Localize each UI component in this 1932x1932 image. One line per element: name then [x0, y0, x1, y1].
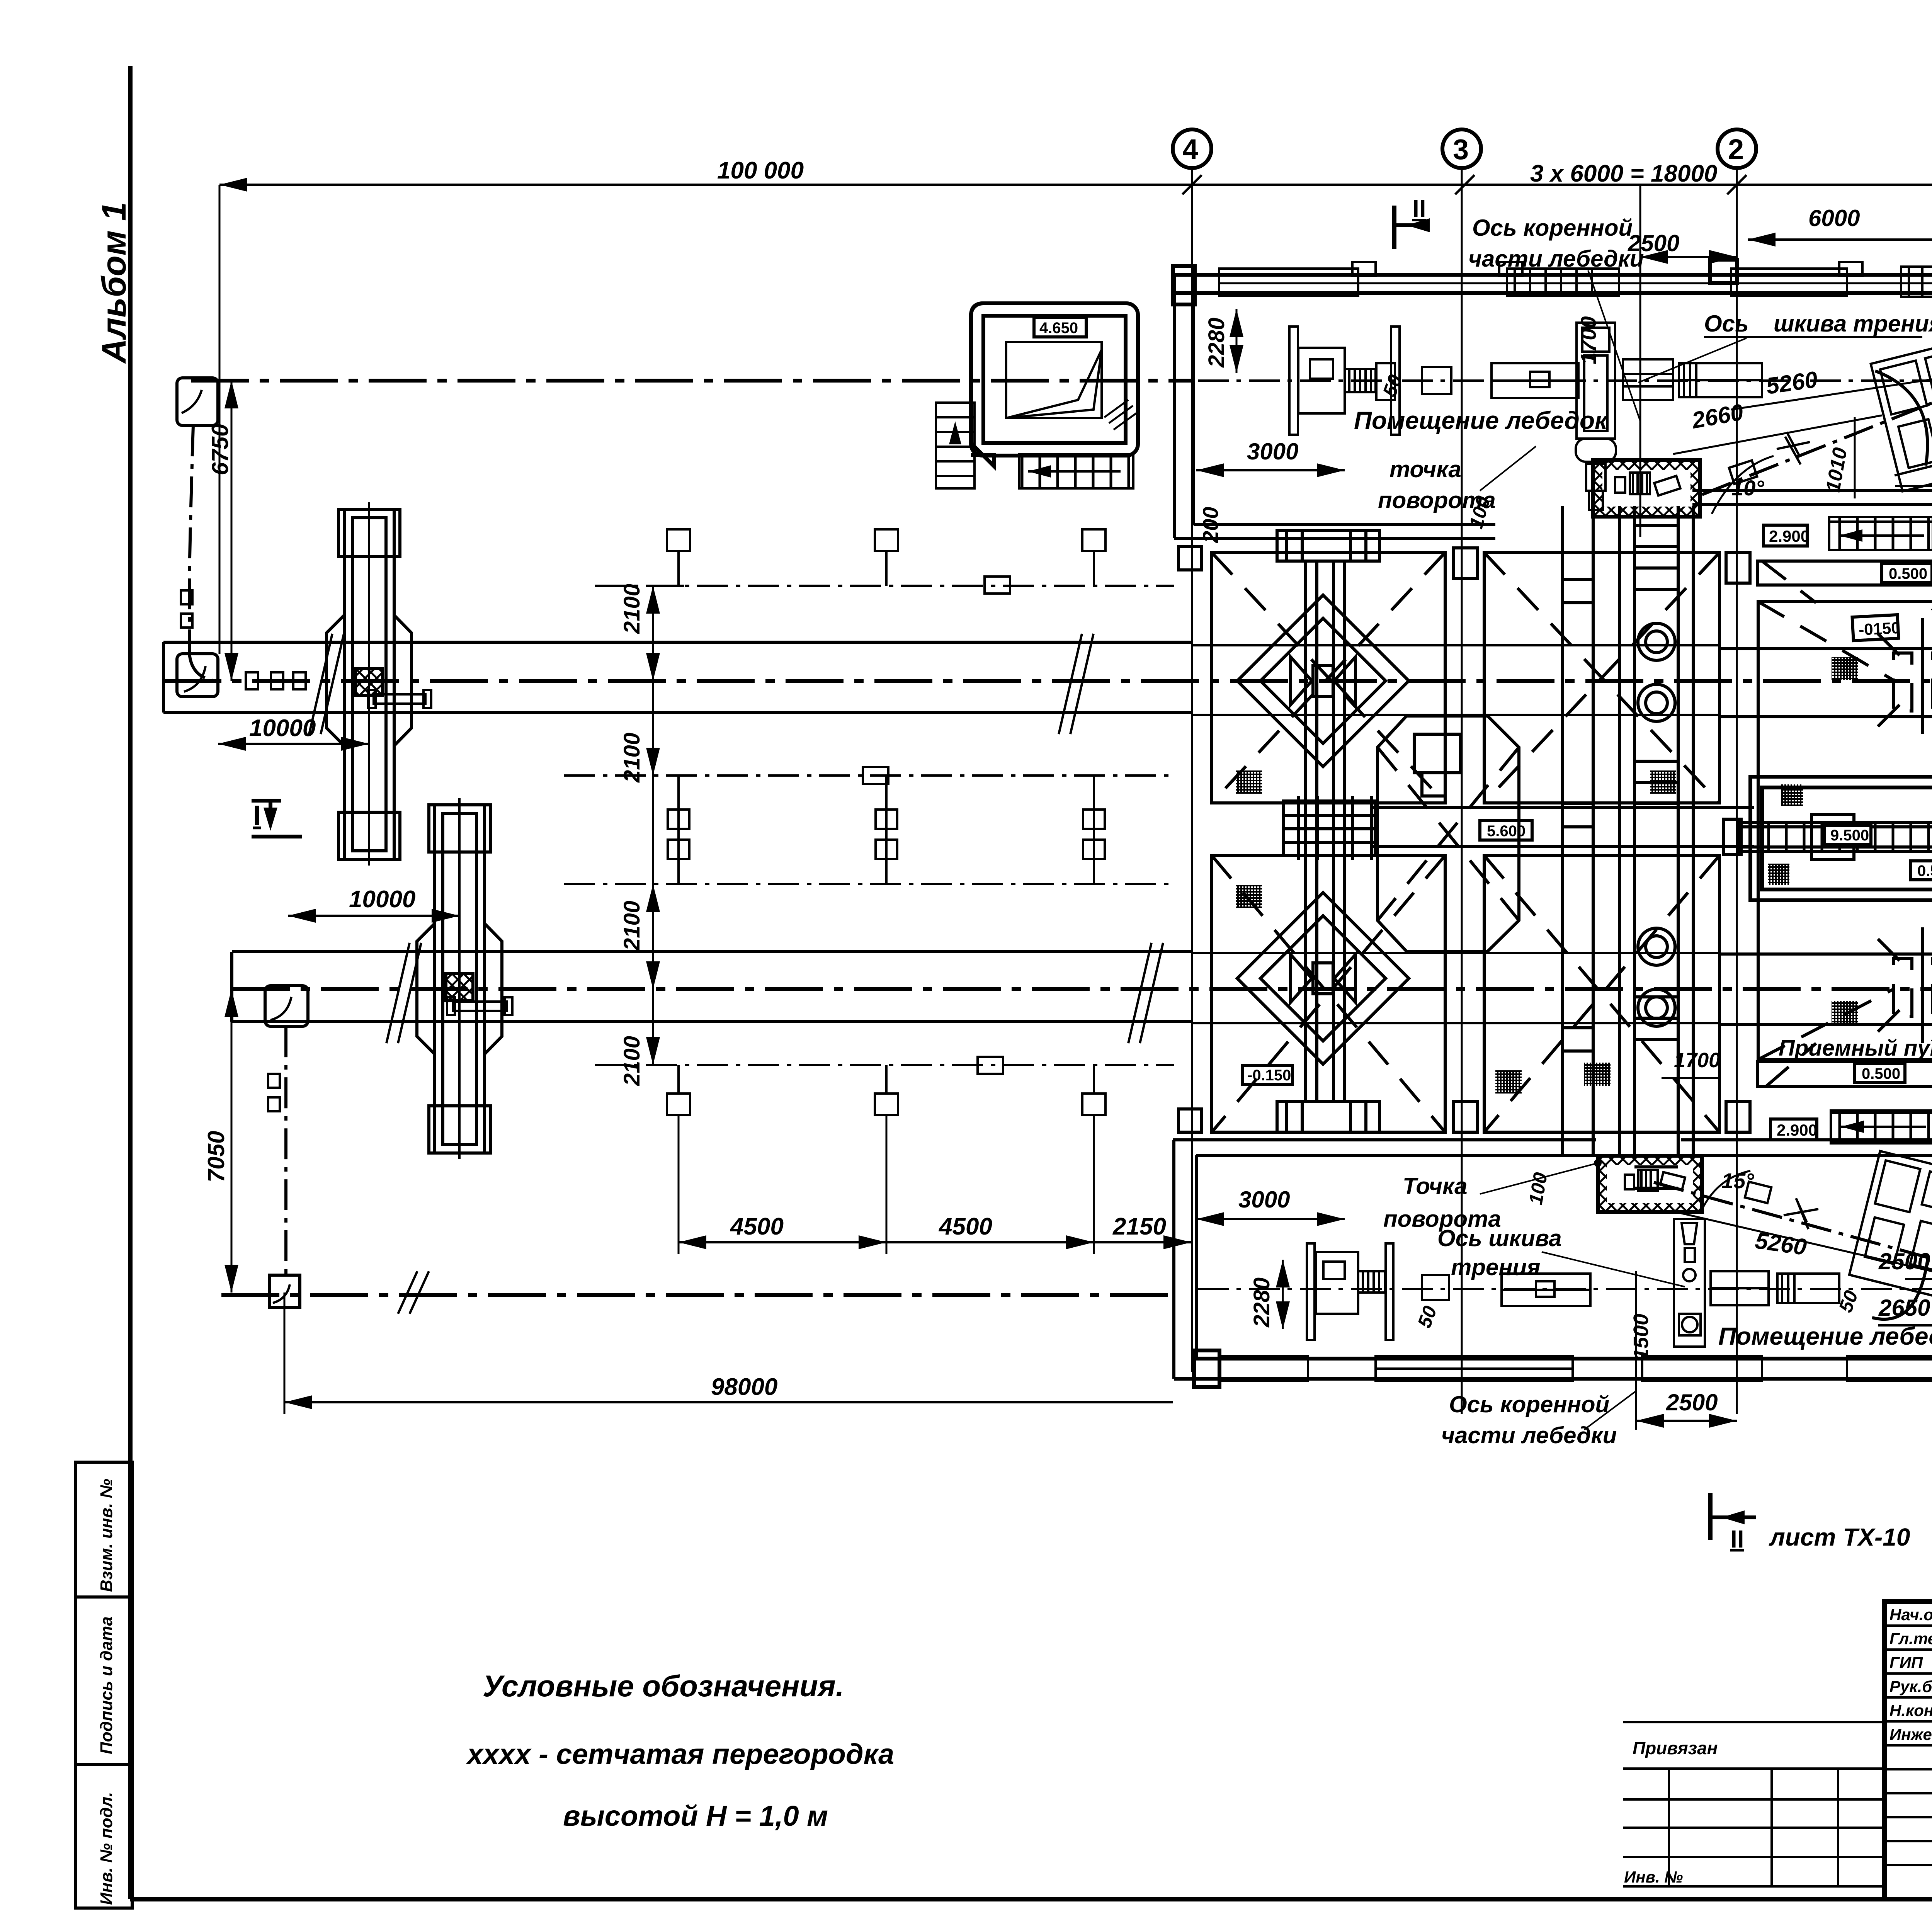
stairs bottom of 4.650 bldg [1019, 454, 1133, 488]
svg-text:4: 4 [1182, 133, 1198, 165]
svg-text:0.500: 0.500 [1862, 1065, 1900, 1082]
svg-text:Инв. № подл.: Инв. № подл. [97, 1792, 116, 1905]
lower track south edge [232, 1020, 1191, 1023]
conveyor supports on line D [667, 1057, 1105, 1115]
stairs left of 4.650 bldg [936, 403, 975, 488]
lower 2.900 landing box [1770, 1119, 1817, 1140]
lower siding left clamp2 [269, 1275, 300, 1308]
hopper square UR [1484, 553, 1719, 803]
top winch building top wall [1173, 275, 1932, 293]
top wall conveyor gallery segments [1219, 267, 1932, 297]
level box 9.500 [1825, 825, 1871, 844]
lower rail axis [232, 987, 1932, 991]
tilted wagon bottom room [1849, 1151, 1932, 1299]
winch small block M2 [1422, 367, 1451, 394]
svg-text:200: 200 [1198, 507, 1223, 543]
svg-text:1700: 1700 [1576, 316, 1600, 364]
shaft middle clamp [1284, 796, 1375, 860]
svg-text:высотой Н = 1,0 м: высотой Н = 1,0 м [563, 1800, 828, 1832]
level box 0.500 weigher [1911, 861, 1932, 880]
svg-text:Ось шкива: Ось шкива [1437, 1225, 1562, 1251]
winch axis bottom room [1198, 1288, 1932, 1290]
upper stairs band [1829, 517, 1932, 550]
svg-text:9.500: 9.500 [1830, 827, 1869, 844]
lower siding left clamp [265, 986, 308, 1026]
svg-text:части лебедки: части лебедки [1468, 246, 1644, 272]
dim 10000 lower [288, 915, 459, 917]
conveyor axis line A [595, 585, 1174, 587]
svg-text:Ось: Ось [1704, 311, 1749, 337]
sheet frame bottom border [130, 1897, 1932, 1901]
svg-text:2280: 2280 [1204, 318, 1229, 368]
level box -0150 right [1852, 615, 1899, 641]
lower siding axis y3345 left [221, 1293, 1174, 1297]
svg-text:2100: 2100 [619, 1036, 645, 1086]
lower siding break [398, 1271, 429, 1314]
svg-text:Инжен.: Инжен. [1889, 1725, 1932, 1743]
svg-text:3000: 3000 [1247, 439, 1298, 464]
curve into upper rail [189, 653, 213, 680]
building 4.650 top left [971, 303, 1138, 466]
svg-text:2.900: 2.900 [1769, 527, 1810, 545]
svg-text:3 х 6000 = 18000: 3 х 6000 = 18000 [1530, 160, 1717, 187]
dim 7050 [231, 989, 233, 1293]
tower circles upper [1638, 623, 1675, 1026]
svg-text:2.900: 2.900 [1777, 1121, 1817, 1139]
conveyor axis line D [595, 1064, 1174, 1066]
tilted wagon top room [1867, 338, 1932, 492]
small table left of title block [1623, 1722, 1884, 1886]
section mark II top [1392, 206, 1396, 249]
elevator tower M4 [1576, 323, 1616, 462]
lower rail break marks [386, 943, 421, 1043]
upper track north edge [163, 641, 1191, 644]
svg-text:хххх - сетчатая перегородка: хххх - сетчатая перегородка [466, 1738, 894, 1770]
svg-text:6000: 6000 [1808, 205, 1860, 231]
hopper square UL [1212, 553, 1445, 803]
lower track left end [230, 952, 233, 1022]
svg-text:100 000: 100 000 [717, 157, 804, 184]
conveyor mid supports between B and C [668, 767, 1105, 884]
conveyor tower strip 2 [1619, 506, 1693, 1188]
dimension 3x6000=18000 [1192, 184, 1932, 186]
upper siding curve down [189, 425, 193, 653]
wheel stop squares on siding [181, 590, 192, 604]
upper track south edge [163, 711, 1191, 714]
wagon tipper 2 (lower) [417, 805, 502, 1153]
column axis circle 3 [1442, 129, 1481, 168]
svg-text:Гл.техн.: Гл.техн. [1889, 1629, 1932, 1648]
pit inner symbols bottom [1625, 1170, 1685, 1191]
svg-text:лист ТХ-10: лист ТХ-10 [1769, 1523, 1910, 1551]
svg-text:-0.150: -0.150 [1247, 1067, 1291, 1084]
winch band M5 [1623, 359, 1673, 400]
bottom winch machine B1 [1307, 1243, 1393, 1340]
svg-text:2: 2 [1728, 133, 1744, 165]
elevator shaft vertical [1306, 561, 1345, 1102]
svg-text:10000: 10000 [349, 886, 415, 913]
svg-text:Привязан: Привязан [1633, 1738, 1718, 1758]
upper 2.900 landing box [1764, 525, 1807, 546]
shaft top pad [1277, 531, 1379, 561]
conveyor axis line B [564, 774, 1174, 777]
top dimension line 100000 [219, 184, 1192, 186]
svg-text:3: 3 [1453, 133, 1469, 165]
wagon haul rope arc [1875, 371, 1927, 466]
section mark II bottom [1708, 1493, 1713, 1540]
conveyor tower strip 1 [1563, 506, 1593, 1155]
svg-text:Инв. №: Инв. № [1624, 1868, 1683, 1886]
svg-text:2100: 2100 [619, 733, 645, 783]
svg-text:6750: 6750 [207, 424, 233, 475]
jack bar below upper track [368, 690, 431, 708]
svg-text:2650: 2650 [1878, 1295, 1930, 1321]
dimension 98000 bottom left [284, 1401, 1173, 1403]
bottom wall gallery segments [1219, 1354, 1932, 1382]
level box -0.150 left [1242, 1065, 1293, 1084]
svg-text:II: II [1730, 1525, 1744, 1553]
svg-text:0.500: 0.500 [1917, 862, 1932, 879]
pit inner symbols top [1615, 473, 1680, 495]
bottom winch bldg bottom wall [1174, 1359, 1932, 1379]
bottom small block B2 [1422, 1275, 1449, 1300]
svg-text:0.500: 0.500 [1889, 565, 1927, 582]
central gallery band [1371, 808, 1754, 847]
top winch bldg bottom wall left segment [1174, 525, 1495, 538]
svg-text:Нач.отд.: Нач.отд. [1889, 1605, 1932, 1624]
wheel stop squares upper rail [246, 672, 258, 689]
top winch bldg bottom wall right segment [1692, 491, 1932, 504]
signature table role labels [1889, 1605, 1932, 1743]
upper siding axis y985 [191, 379, 1191, 383]
shaft bottom pad [1277, 1102, 1379, 1132]
upper 0.500 slab [1757, 561, 1932, 611]
svg-text:Точка: Точка [1403, 1173, 1468, 1199]
svg-text:части лебедки: части лебедки [1441, 1422, 1617, 1448]
svg-text:шкива трения: шкива трения [1774, 311, 1932, 337]
upper rail break marks [309, 634, 344, 734]
hatched pit bottom [1598, 1156, 1702, 1212]
svg-text:2500: 2500 [1628, 230, 1679, 256]
dim 10000 upper [218, 743, 369, 745]
left stamp column boxes [76, 1462, 132, 1908]
top wall end columns [1173, 266, 1195, 304]
svg-text:точка: точка [1389, 456, 1461, 482]
lower track north edge [232, 950, 1191, 953]
svg-text:3000: 3000 [1238, 1187, 1290, 1213]
right hopper tall [1758, 602, 1932, 1060]
central octagon tower [1378, 716, 1519, 951]
svg-text:7050: 7050 [203, 1131, 229, 1182]
upper rail axis [163, 679, 1932, 683]
conveyor axis line C [564, 883, 1174, 885]
hopper square LL [1212, 855, 1445, 1132]
column pads central block [1179, 547, 1750, 1132]
bottom winch bldg top wall [1173, 1140, 1932, 1155]
svg-text:2500: 2500 [1878, 1248, 1930, 1274]
svg-text:2280: 2280 [1249, 1277, 1274, 1328]
bottom cluster B5 [1711, 1271, 1839, 1305]
upper rail left clamp [177, 654, 218, 697]
diamond tipper lower [1237, 893, 1409, 1064]
lower 0.500 slab [1757, 1039, 1932, 1087]
tipper1 axis tie [368, 502, 370, 866]
level box 5.600 [1480, 820, 1532, 840]
top winch bldg left wall [1174, 275, 1194, 538]
signature table grid [1884, 1602, 1932, 1899]
vertical dim stack 2100 [652, 586, 654, 1065]
svg-text:Подпись и дата: Подпись и дата [97, 1616, 116, 1754]
weigher corner hatches [1781, 784, 1803, 806]
svg-text:Помещение лебедок: Помещение лебедок [1354, 406, 1609, 434]
svg-text:Приемный пункт: Приемный пункт [1779, 1036, 1932, 1061]
winch long machine M3 [1492, 363, 1578, 398]
dim 4500 4500 2150 [679, 1241, 1191, 1243]
winch axis top room [1198, 379, 1932, 382]
svg-text:I: I [253, 800, 261, 831]
svg-text:-0150: -0150 [1858, 619, 1901, 639]
sheet frame left border [128, 66, 133, 1899]
upper siding left clamp [177, 378, 218, 425]
conveyor supports on line A [667, 529, 1105, 594]
svg-text:4500: 4500 [730, 1213, 784, 1240]
hatched pit top [1593, 460, 1700, 517]
section mark I left [252, 801, 302, 837]
wagon rope bottom [1872, 1256, 1928, 1319]
svg-text:5.600: 5.600 [1487, 823, 1526, 840]
bottom tower B4 [1674, 1219, 1705, 1347]
svg-text:Взим. инв. №: Взим. инв. № [97, 1479, 116, 1592]
svg-text:4.650: 4.650 [1039, 320, 1078, 337]
bottom winch bldg left wall [1174, 1140, 1196, 1379]
weigher conveyor [1723, 815, 1932, 859]
svg-text:2150: 2150 [1112, 1213, 1166, 1240]
svg-text:2100: 2100 [619, 584, 645, 634]
svg-text:Условные обозначения.: Условные обозначения. [483, 1669, 844, 1703]
small drive under tower [1586, 464, 1605, 510]
slant haul line bottom [1654, 1182, 1932, 1260]
hopper square LR [1484, 855, 1719, 1132]
slant haul line top [1702, 400, 1932, 495]
winch machine M1 [1289, 327, 1400, 435]
extension line at x568 [219, 185, 221, 654]
svg-text:Ось коренной: Ось коренной [1472, 215, 1633, 241]
column axis circle 4 [1173, 129, 1211, 168]
svg-text:1500: 1500 [1629, 1314, 1653, 1360]
wagon tipper 1 (upper) [327, 509, 412, 859]
svg-text:2500: 2500 [1666, 1389, 1718, 1415]
svg-text:II: II [1412, 195, 1426, 223]
svg-text:10000: 10000 [249, 715, 316, 742]
title block outer [1884, 1602, 1932, 1899]
svg-text:4500: 4500 [938, 1213, 992, 1240]
diamond tipper upper [1237, 595, 1409, 767]
lower siding curve down [284, 1026, 287, 1274]
svg-text:ГИП: ГИП [1889, 1653, 1923, 1672]
svg-text:трения: трения [1451, 1254, 1541, 1280]
lower stairs band [1831, 1111, 1932, 1143]
svg-text:2100: 2100 [619, 901, 645, 951]
weigher building [1750, 777, 1932, 900]
svg-text:Н.контр.: Н.контр. [1889, 1701, 1932, 1719]
dim 6750 [231, 381, 233, 681]
svg-text:Рук.бриг.: Рук.бриг. [1889, 1677, 1932, 1696]
svg-text:1700: 1700 [1674, 1049, 1720, 1072]
column axis circle 2 [1718, 129, 1756, 168]
upper track left end [162, 642, 165, 713]
svg-text:Альбом 1: Альбом 1 [95, 202, 133, 364]
svg-text:98000: 98000 [711, 1374, 777, 1400]
svg-text:Ось коренной: Ось коренной [1449, 1391, 1609, 1417]
bottom long machine B3 [1502, 1274, 1590, 1306]
jack bar below lower track [447, 997, 512, 1015]
winch band M6 [1679, 363, 1762, 397]
